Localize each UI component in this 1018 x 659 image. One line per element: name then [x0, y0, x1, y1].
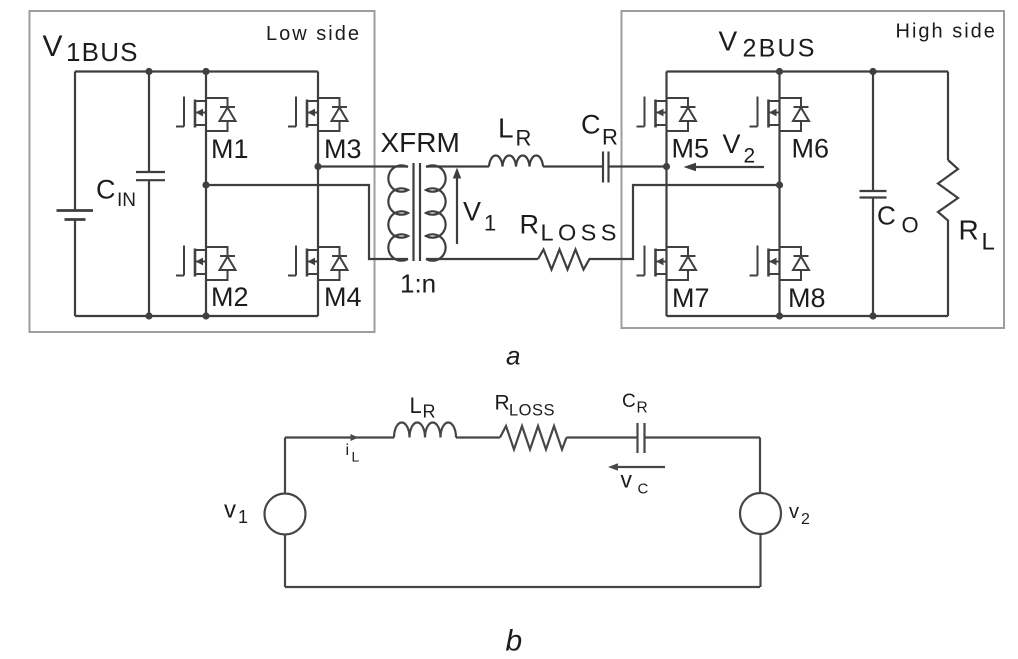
svg-text:IN: IN: [117, 190, 136, 211]
svg-text:v: v: [789, 501, 799, 523]
svg-text:High side: High side: [896, 21, 997, 43]
svg-text:v: v: [621, 467, 633, 493]
svg-text:LOSS: LOSS: [509, 402, 555, 420]
svg-text:R: R: [637, 400, 648, 417]
svg-text:i: i: [346, 442, 350, 459]
svg-text:1:n: 1:n: [400, 269, 436, 299]
svg-text:XFRM: XFRM: [381, 127, 460, 158]
svg-text:V: V: [463, 197, 481, 227]
svg-text:M6: M6: [792, 134, 830, 164]
svg-text:V: V: [719, 26, 738, 57]
svg-text:1BUS: 1BUS: [66, 37, 139, 67]
svg-text:2: 2: [801, 511, 810, 528]
svg-text:R: R: [516, 126, 532, 151]
svg-text:C: C: [638, 481, 649, 498]
svg-text:Low side: Low side: [266, 23, 361, 45]
svg-text:1: 1: [238, 507, 248, 527]
svg-text:a: a: [506, 341, 520, 371]
svg-text:R: R: [602, 125, 618, 150]
svg-text:R: R: [520, 210, 540, 240]
svg-text:L: L: [982, 229, 995, 256]
svg-text:M2: M2: [211, 282, 249, 312]
svg-text:b: b: [506, 625, 523, 658]
svg-text:O: O: [902, 213, 919, 238]
svg-text:M5: M5: [672, 134, 710, 164]
svg-text:v: v: [224, 497, 236, 524]
svg-text:C: C: [581, 110, 601, 140]
svg-text:R: R: [495, 392, 510, 415]
svg-text:M1: M1: [211, 134, 249, 164]
svg-text:2: 2: [744, 145, 756, 168]
svg-text:2BUS: 2BUS: [743, 35, 817, 63]
svg-text:M7: M7: [672, 283, 710, 313]
svg-text:C: C: [877, 201, 896, 231]
svg-text:1: 1: [484, 211, 496, 236]
svg-text:M4: M4: [324, 282, 362, 312]
svg-text:V: V: [723, 129, 741, 159]
svg-text:LOSS: LOSS: [541, 220, 621, 246]
svg-text:R: R: [959, 215, 979, 246]
svg-text:M3: M3: [324, 134, 362, 164]
svg-text:L: L: [352, 449, 360, 465]
svg-text:V: V: [43, 30, 63, 63]
svg-text:R: R: [423, 402, 436, 422]
svg-text:C: C: [96, 175, 116, 205]
svg-text:L: L: [410, 393, 422, 418]
svg-text:M8: M8: [788, 283, 826, 313]
svg-text:C: C: [622, 391, 636, 412]
svg-text:L: L: [498, 113, 514, 144]
